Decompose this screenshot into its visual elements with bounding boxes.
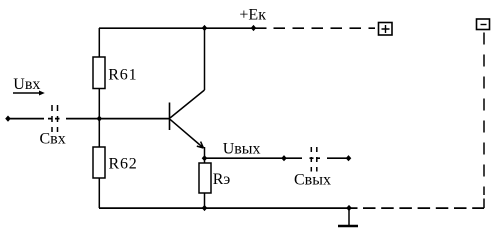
svg-text:+Ек: +Ек xyxy=(239,7,266,24)
wire right vertical dashed to battery minus xyxy=(483,33,485,196)
node ground junction xyxy=(346,205,352,211)
ground xyxy=(348,208,350,225)
node emitter output junction xyxy=(202,155,208,161)
svg-text:R62: R62 xyxy=(109,156,138,173)
wire top rail solid xyxy=(99,27,267,29)
svg-text:Rэ: Rэ xyxy=(213,171,231,188)
wire emitter to node xyxy=(204,147,206,163)
node output terminal xyxy=(346,155,352,161)
transistor collector diagonal xyxy=(170,90,205,118)
wire bottom rail dashed xyxy=(363,207,484,209)
transistor emitter diagonal with arrow xyxy=(170,119,204,148)
svg-text:R61: R61 xyxy=(108,67,137,84)
wire collector vertical xyxy=(204,28,206,90)
node collector-rail junction xyxy=(202,25,208,31)
capacitor Cvyx dashed plates xyxy=(311,147,317,172)
wire dashes through Cvx xyxy=(48,118,60,120)
svg-text:Свых: Свых xyxy=(294,172,331,189)
node Re bottom junction xyxy=(202,205,208,211)
transistor VT base bar xyxy=(169,103,171,131)
resistor R62 xyxy=(93,147,105,178)
battery plus terminal box xyxy=(379,23,393,36)
wire left vertical divider chain xyxy=(98,28,100,208)
node base divider junction xyxy=(97,116,103,122)
svg-text:Свх: Свх xyxy=(40,131,66,148)
wire output left segment xyxy=(205,157,303,159)
battery minus terminal box xyxy=(477,19,490,30)
svg-text:Uвых: Uвых xyxy=(223,141,261,158)
wire top rail dashed to battery plus xyxy=(274,27,376,29)
capacitor Cvx dashed plates xyxy=(52,105,58,132)
resistor Re xyxy=(199,163,211,193)
node input terminal xyxy=(5,116,11,122)
wire Re to bottom rail xyxy=(204,193,206,208)
wire base segment xyxy=(66,118,170,120)
node output mid xyxy=(281,155,287,161)
wire bottom rail solid xyxy=(99,207,358,209)
wire output right segment xyxy=(327,157,349,159)
wire input left segment xyxy=(8,118,44,120)
resistor R61 xyxy=(93,57,105,89)
arrow input direction xyxy=(13,92,40,94)
wire dashes through Cvyx xyxy=(310,157,321,159)
node +Ek terminal xyxy=(251,25,257,31)
svg-text:Uвх: Uвх xyxy=(13,76,40,93)
